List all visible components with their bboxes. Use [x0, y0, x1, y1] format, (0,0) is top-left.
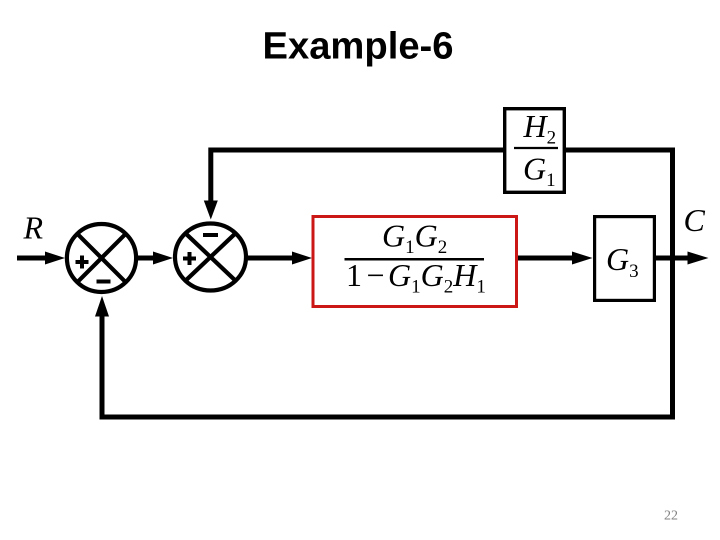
wire: S1 to S2 arrow — [138, 252, 173, 265]
svg-text:G1G2: G1G2 — [382, 218, 447, 259]
block H2/G1 — [505, 109, 565, 193]
S1 plus sign — [76, 256, 89, 269]
fraction bar — [345, 258, 485, 261]
wire: down arrowhead into summer 2 — [204, 201, 218, 220]
S2 minus sign — [203, 233, 218, 237]
block G3 — [595, 217, 655, 301]
fraction bar — [514, 147, 558, 149]
svg-text:C: C — [684, 202, 706, 238]
wire: up arrowhead into summer 1 — [95, 296, 109, 317]
summing junction S1 — [67, 224, 136, 292]
wire: S2 to G block arrow — [248, 252, 312, 265]
svg-text:R: R — [23, 210, 44, 246]
wire: feedback loop (top takeoff, right vertical, bottom return) — [102, 150, 673, 417]
S1 minus sign — [97, 280, 111, 284]
wire: output arrow to C — [655, 252, 709, 265]
S2 plus sign — [183, 252, 196, 265]
summing junction S2 — [175, 224, 246, 291]
block G1G2/(1-G1G2H1) (red) — [313, 217, 517, 307]
wire: input R arrow — [17, 252, 65, 265]
svg-text:Example-6: Example-6 — [263, 26, 454, 68]
wire: G block to G3 arrow — [518, 252, 593, 265]
svg-text:22: 22 — [664, 509, 678, 524]
